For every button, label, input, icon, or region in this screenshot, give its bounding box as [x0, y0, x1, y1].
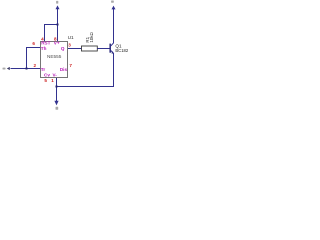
- svg-text:8: 8: [54, 36, 57, 41]
- transistor Q1 emitter lead: [111, 51, 114, 87]
- input port label: [3, 68, 6, 70]
- junction dot ground rail: [56, 86, 58, 88]
- svg-text:1: 1: [51, 78, 54, 83]
- wire V- pin1 down to ground: [56, 77, 58, 101]
- wire emitter return to ground rail: [57, 86, 115, 88]
- ground arrow: [54, 101, 58, 106]
- wire V+ rail vertical: [57, 9, 59, 41]
- transistor Q1 emitter arrow: [111, 51, 113, 54]
- transistor Q1 base bar: [109, 44, 111, 53]
- svg-text:Tr: Tr: [41, 67, 46, 72]
- input port arrow: [7, 67, 10, 70]
- svg-text:V-: V-: [53, 73, 58, 78]
- junction dot Th/Tr tie: [26, 68, 28, 70]
- svg-text:4: 4: [41, 36, 44, 41]
- svg-text:6: 6: [32, 41, 35, 46]
- svg-text:5: 5: [44, 78, 47, 83]
- svg-text:10kΩ: 10kΩ: [89, 32, 94, 43]
- wire input to Tr pin2: [11, 68, 41, 70]
- svg-text:NE555: NE555: [47, 54, 62, 59]
- svg-text:Dis: Dis: [60, 67, 68, 72]
- svg-text:2: 2: [34, 63, 37, 68]
- svg-text:Th: Th: [41, 46, 47, 51]
- junction dot at RST/V+ rail: [57, 24, 59, 26]
- power arrow P1 (top of V+ rail): [56, 5, 60, 9]
- power label P2: [111, 1, 114, 3]
- wire Q pin3 to resistor: [67, 48, 82, 50]
- op-amp U1 body (NE555 timer): [41, 42, 68, 78]
- svg-text:V+: V+: [54, 41, 60, 46]
- ground label: [56, 107, 59, 110]
- power arrow P2 (collector rail): [112, 6, 116, 10]
- svg-text:BC182: BC182: [115, 48, 128, 53]
- transistor Q1 collector lead: [111, 9, 114, 46]
- svg-text:U1: U1: [68, 35, 74, 41]
- svg-text:RST: RST: [41, 41, 50, 46]
- svg-text:3: 3: [68, 42, 71, 47]
- svg-text:Cv: Cv: [44, 73, 50, 78]
- power label P1: [56, 1, 58, 4]
- svg-text:7: 7: [69, 63, 72, 68]
- wire resistor to base: [97, 48, 109, 50]
- wire RST pin4 up and over to V+ rail: [45, 25, 58, 42]
- wire Th pin6 left and down: [27, 48, 41, 69]
- svg-text:Q: Q: [61, 46, 65, 51]
- resistor R1 body: [82, 46, 98, 51]
